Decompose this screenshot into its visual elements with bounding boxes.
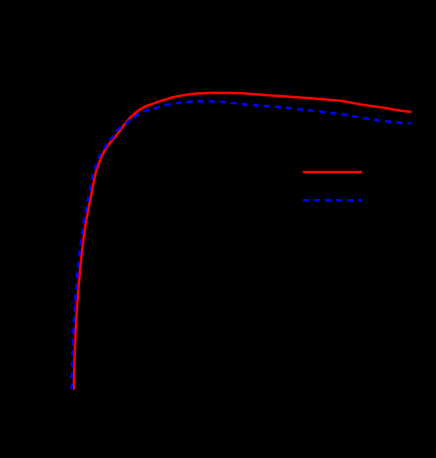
legend blue dashed line sample [303, 199, 362, 202]
red solid curve (series 1) [74, 93, 412, 390]
blue dashed curve (series 2) [72, 101, 411, 389]
legend red solid line sample [303, 171, 362, 174]
